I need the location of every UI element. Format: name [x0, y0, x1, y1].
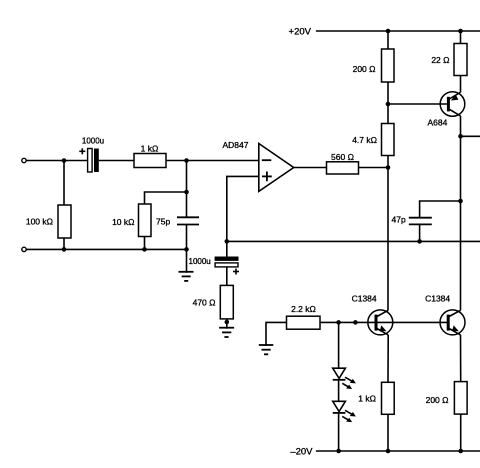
- wire R1 bottom to bottom rail: [63, 238, 65, 249]
- capacitor C1 1000u electrolytic: [79, 148, 99, 172]
- wire junction to C2 top: [186, 192, 188, 217]
- wire collector down to 47p node: [460, 136, 462, 201]
- wire R4 to ground: [226, 319, 228, 329]
- node base bus: [353, 320, 358, 325]
- node -20V at 1k: [386, 449, 391, 454]
- ground: [219, 328, 234, 337]
- node base A684: [386, 102, 391, 107]
- capacitor C3 1000u electrolytic: [215, 257, 239, 275]
- wire tap to C4: [420, 201, 461, 217]
- wire collector to right edge: [461, 135, 480, 137]
- svg-text:C1384: C1384: [352, 293, 377, 303]
- svg-text:1 kΩ: 1 kΩ: [141, 144, 159, 154]
- wire C2 bottom to rail: [186, 225, 188, 250]
- wire plus node to C3: [226, 241, 228, 256]
- resistor R7 4.7 kΩ: [382, 124, 395, 156]
- wire R8 to Q1 emitter: [460, 76, 462, 93]
- svg-text:–20V: –20V: [290, 447, 313, 458]
- wire rail to R6: [387, 31, 389, 49]
- wire junction down: [186, 161, 188, 193]
- wire LED chain top: [338, 322, 340, 368]
- wire Q3 emitter to R11: [460, 335, 462, 382]
- wire 2.2k ground stub: [266, 322, 287, 346]
- capacitor C2 75p: [177, 217, 199, 224]
- svg-text:22 Ω: 22 Ω: [431, 55, 449, 65]
- wire plus input: [227, 176, 259, 241]
- resistor R9 2.2 kΩ: [287, 316, 321, 329]
- svg-text:1000u: 1000u: [189, 257, 211, 266]
- svg-text:1 kΩ: 1 kΩ: [358, 394, 376, 404]
- wire op-amp output to R5: [294, 167, 327, 169]
- ground: [259, 345, 274, 354]
- wire C3 to R4: [226, 267, 228, 286]
- node R4 bottom: [225, 320, 230, 325]
- svg-text:200 Ω: 200 Ω: [353, 64, 376, 74]
- resistor R5 560 Ω: [327, 162, 359, 174]
- svg-text:+20V: +20V: [289, 27, 312, 38]
- node +20V at 200: [386, 29, 391, 34]
- resistor R6 200 Ω: [382, 49, 395, 82]
- ground: [179, 272, 194, 281]
- wire corner to 10k: [145, 192, 187, 204]
- svg-text:75p: 75p: [156, 217, 170, 227]
- wire C4 to mid rail: [419, 224, 421, 241]
- transistor Q3 C1384 NPN: [440, 310, 465, 335]
- wire R5 to node: [359, 167, 389, 169]
- node -20V at 200: [458, 449, 463, 454]
- op-amp U1 AD847: [259, 144, 294, 192]
- capacitor C4 47p: [409, 218, 432, 225]
- wire R11 to -20V rail: [460, 414, 462, 451]
- svg-text:47p: 47p: [392, 215, 406, 225]
- wire bottom rail: [27, 248, 187, 250]
- resistor R8 22 Ω: [454, 44, 467, 76]
- svg-text:1000u: 1000u: [82, 137, 104, 146]
- wire Q1 collector down: [460, 116, 462, 136]
- node -20V at LED: [336, 449, 341, 454]
- op-amp plus sign: [262, 172, 272, 182]
- wire down to R 100k: [63, 161, 65, 206]
- node bottom rail end: [184, 247, 189, 252]
- node collector out: [458, 134, 463, 139]
- node plus input rail: [225, 239, 230, 244]
- node bottom rail at 100k: [62, 247, 67, 252]
- svg-text:AD847: AD847: [223, 140, 249, 150]
- svg-text:200 Ω: 200 Ω: [426, 395, 449, 405]
- node bottom rail at 10k: [142, 247, 147, 252]
- wire R10 to -20V rail: [387, 414, 389, 451]
- wire R6 to base node: [387, 82, 389, 104]
- wire R3 bottom to rail: [144, 237, 146, 250]
- resistor R11 200 Ω: [454, 382, 467, 415]
- wire +20V rail: [316, 30, 480, 32]
- transistor Q1 A684 PNP: [440, 92, 465, 117]
- LED D2: [333, 401, 356, 422]
- node output network: [386, 165, 391, 170]
- resistor R3 10 kΩ: [139, 204, 152, 237]
- node input top junction: [62, 158, 67, 163]
- wire base bus: [320, 321, 448, 323]
- resistor R2 1 kΩ: [134, 154, 166, 168]
- node feedback junction: [184, 158, 189, 163]
- svg-text:100 kΩ: 100 kΩ: [26, 217, 53, 227]
- svg-text:10 kΩ: 10 kΩ: [112, 217, 134, 227]
- svg-text:470 Ω: 470 Ω: [193, 298, 216, 308]
- node +20V at 22: [458, 29, 463, 34]
- wire -20V rail: [316, 450, 480, 452]
- svg-text:A684: A684: [428, 117, 448, 127]
- resistor R1 100 kΩ: [58, 205, 71, 238]
- wire LED1 to LED2: [338, 380, 340, 402]
- resistor R4 470 Ω: [220, 285, 233, 319]
- node C4 mid rail: [417, 239, 422, 244]
- svg-text:4.7 kΩ: 4.7 kΩ: [352, 135, 377, 145]
- input terminal bottom: [22, 247, 26, 251]
- wire base node to Q1 base: [388, 103, 448, 105]
- wire mid rail: [227, 240, 480, 242]
- LED D1: [333, 368, 356, 389]
- node feedback split: [184, 190, 189, 195]
- svg-text:C1384: C1384: [425, 293, 450, 303]
- wire R7 to output node: [387, 156, 389, 168]
- resistor R10 1 kΩ: [382, 382, 395, 414]
- wire rail to R8: [460, 31, 462, 44]
- wire C1 to R2: [99, 160, 134, 162]
- op-amp minus sign: [262, 159, 272, 161]
- wire node to R7: [387, 104, 389, 124]
- input terminal top: [22, 158, 26, 162]
- wire Q2 emitter to R10: [387, 335, 389, 382]
- wire R2 to op-amp minus input: [166, 160, 259, 162]
- node LED tap: [336, 320, 341, 325]
- svg-text:2.2 kΩ: 2.2 kΩ: [291, 304, 316, 314]
- node 47p tap: [458, 199, 463, 204]
- wire output node down to Q2 collector: [387, 168, 389, 311]
- transistor Q2 C1384 NPN: [368, 310, 393, 335]
- wire rail end to ground: [186, 249, 188, 272]
- svg-text:560 Ω: 560 Ω: [331, 152, 354, 162]
- wire Q1 collector line down to Q3: [460, 201, 462, 310]
- wire LED2 to -20V rail: [338, 413, 340, 451]
- wire input top to C1: [27, 160, 88, 162]
